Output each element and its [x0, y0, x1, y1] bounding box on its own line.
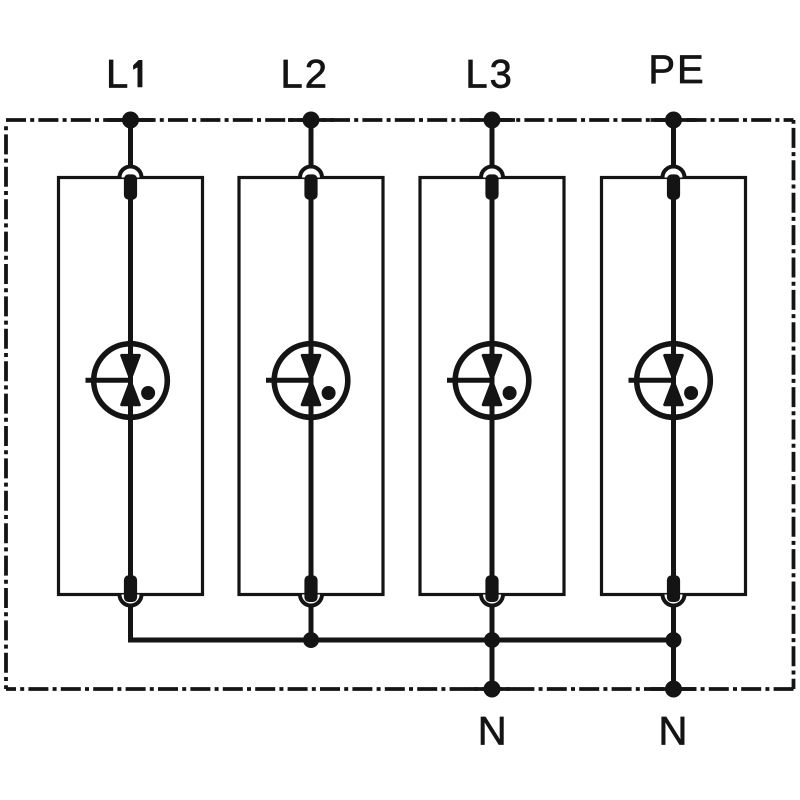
- spark gap PE: gas-filled indicator dot: [684, 386, 698, 400]
- node N: junction dot on bottom border under PE: [665, 681, 682, 698]
- wire: solid border segment at PE top junction: [651, 118, 697, 122]
- SPD module box L3: [420, 178, 564, 595]
- wire PE vertical: [671, 120, 676, 689]
- wire L3 vertical: [490, 120, 495, 689]
- node N: junction dot on bottom border under L3: [484, 681, 501, 698]
- wire: solid border segment at L1 top junction: [108, 118, 154, 122]
- SPD module box L2: [239, 178, 383, 595]
- terminal: bottom plug-in contact of module L2: [300, 595, 322, 606]
- svg-text:N: N: [659, 710, 690, 754]
- spark gap (surge arrester) of module PE: circle: [637, 344, 711, 418]
- wire: solid border segment at bottom N junction under PE: [651, 687, 697, 691]
- node: junction dot L1 on top border: [122, 112, 139, 129]
- wire: solid border segment at bottom N junction under L3: [469, 687, 515, 691]
- spark gap L3: gas-filled indicator dot: [503, 386, 517, 400]
- node: junction dot on N bus under PE: [666, 632, 682, 648]
- wire: solid border segment at L3 top junction: [469, 118, 515, 122]
- svg-text:PE: PE: [648, 48, 705, 92]
- terminal: bottom plug-in contact of module L3: [481, 595, 503, 606]
- wire L2 vertical: [309, 120, 314, 640]
- spark gap L2: gas-filled indicator dot: [322, 386, 336, 400]
- spark gap L1: electrode triangles: [122, 355, 140, 378]
- spark gap L2: electrode triangles: [302, 355, 320, 378]
- spark gap PE: electrode lead (horizontal line): [629, 378, 674, 383]
- terminal: bottom plug-in contact of module L1: [120, 595, 142, 606]
- svg-text:N: N: [478, 710, 509, 754]
- svg-text:L: L: [106, 52, 128, 96]
- terminal: bottom plug-in contact of module PE: [663, 595, 685, 606]
- terminal: top plug-in contact of module PE: [663, 167, 685, 178]
- node: junction dot on N bus under L2: [303, 632, 319, 648]
- svg-text:L2: L2: [281, 52, 330, 96]
- node: junction dot L3 on top border: [484, 112, 501, 129]
- spark gap L1: electrode lead (horizontal line): [86, 378, 131, 383]
- terminal: top plug-in contact of module L2: [300, 167, 322, 178]
- spark gap (surge arrester) of module L1: circle: [94, 344, 168, 418]
- wire L1 vertical: [128, 120, 133, 640]
- spark gap L3: electrode lead (horizontal line): [447, 378, 492, 383]
- wire: bottom N bus: [128, 638, 674, 643]
- wire: solid border segment at L2 top junction: [288, 118, 334, 122]
- spark gap L1: gas-filled indicator dot: [141, 386, 155, 400]
- terminal: top plug-in contact of module L3: [481, 167, 503, 178]
- spark gap (surge arrester) of module L3: circle: [455, 344, 529, 418]
- SPD module box PE: [602, 178, 746, 595]
- spark gap L3: electrode triangles: [483, 355, 501, 378]
- node: junction dot on N bus under L3: [484, 632, 500, 648]
- SPD module box L1: [59, 178, 203, 595]
- terminal: top plug-in contact of module L1: [120, 167, 142, 178]
- svg-text:L3: L3: [465, 52, 514, 96]
- spark gap L2: electrode lead (horizontal line): [266, 378, 311, 383]
- spark gap (surge arrester) of module L2: circle: [274, 344, 348, 418]
- node: junction dot PE on top border: [665, 112, 682, 129]
- enclosure boundary (device outline, dash-dot border): [6, 118, 794, 122]
- spark gap PE: electrode triangles: [665, 355, 683, 378]
- node: junction dot L2 on top border: [303, 112, 320, 129]
